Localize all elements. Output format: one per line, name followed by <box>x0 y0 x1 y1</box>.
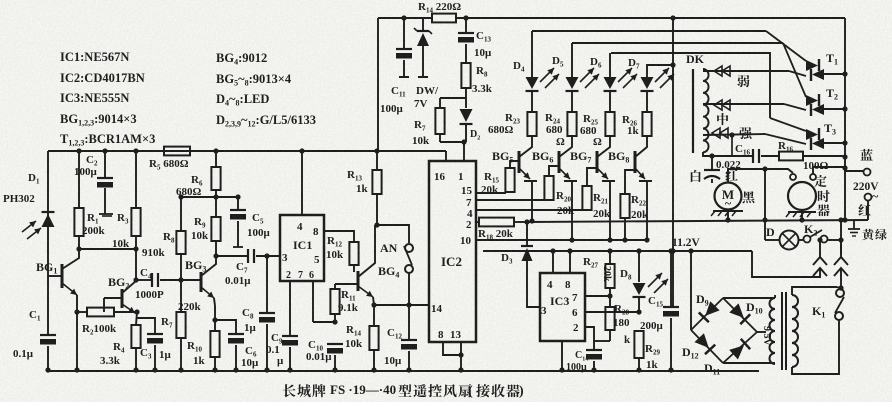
capacitor C10 0.01u <box>327 343 343 345</box>
wire line L1 to fan <box>527 220 868 222</box>
resistor R21 20k <box>582 186 591 210</box>
resistor R18 20k <box>479 218 514 227</box>
motor M <box>715 183 742 210</box>
terminal blue 220V <box>860 149 872 161</box>
wire LED routing line D4 <box>532 30 766 32</box>
capacitor C15 200u <box>670 251 672 306</box>
label weak <box>737 75 749 87</box>
diode D2 <box>465 98 467 108</box>
resistor R11 9.1k <box>335 283 358 285</box>
resistor R14 220 ohm <box>432 14 456 23</box>
capacitor C12 10u <box>408 305 410 339</box>
wire IC1 pin6 down to C10 node <box>312 281 314 322</box>
wire red node to timer <box>728 169 765 183</box>
capacitor C2 100u <box>104 151 106 177</box>
IC U3 NE555 IC3 <box>540 273 585 341</box>
capacitor C5 100u <box>237 197 239 209</box>
wire bridge AC bottom to secondary <box>723 362 775 364</box>
wire DK tap strong <box>703 134 765 135</box>
wire bus corner into IC2 pin16 <box>445 151 447 161</box>
IC U2 CD4017 IC2 <box>429 161 476 342</box>
capacitor C14 100u <box>586 349 602 351</box>
resistor R24 680 <box>571 91 573 112</box>
wire R22 to L2 <box>624 218 626 240</box>
resistor R15 20k <box>505 168 514 192</box>
switch AN <box>377 225 409 243</box>
wire rail L3 to plug left <box>752 251 820 277</box>
resistor R6 680 ohm <box>215 151 217 167</box>
wire red node down to lamp branch <box>764 169 766 240</box>
wire left rail from top line to bus <box>377 18 379 151</box>
transformer B secondary winding <box>770 298 776 364</box>
node junction dots top line <box>401 15 406 20</box>
triac T3 <box>770 118 806 131</box>
wire bridge positive to rail <box>690 251 692 330</box>
op-amp IC1 NE567 <box>280 215 324 281</box>
wire AN to pin14 node <box>408 273 410 305</box>
wire lamp line to plug right <box>840 240 842 255</box>
wire secondary top lead <box>774 295 776 298</box>
LED D8 <box>638 251 640 282</box>
LED D6 <box>609 53 611 77</box>
LED D5 <box>571 43 573 77</box>
plug connector left <box>813 257 827 265</box>
wire DK tap middle <box>703 103 784 105</box>
resistor R2 100k <box>77 311 87 313</box>
label red lead <box>725 169 737 181</box>
wire IC1 pin2 down <box>289 281 291 335</box>
resistor R29 1k <box>634 331 643 358</box>
wire IC3 pin2 to C14 <box>585 327 594 349</box>
wire R7/D2 bracket <box>440 97 466 99</box>
resistor R28 180k <box>609 296 611 307</box>
wire 11.2V rail L3 <box>483 250 752 252</box>
label black lead <box>743 191 755 203</box>
wire IC1 pin4 to bus <box>301 151 303 215</box>
label strong <box>739 127 751 139</box>
diode D3 <box>526 222 528 245</box>
resistor R9 10k <box>215 197 217 217</box>
node bus dots <box>76 148 81 153</box>
snubber capacitor C16 0.022 <box>712 155 753 157</box>
wire upper bus <box>48 150 446 152</box>
resistor R14 10k <box>373 305 375 326</box>
wire top supply line <box>378 17 432 19</box>
resistor R8 3.3k <box>461 63 470 88</box>
wire IC2 pin4 to R21 <box>476 209 587 211</box>
LED D7 <box>647 65 673 77</box>
wire K1 to primary bottom <box>792 320 839 374</box>
wire base node <box>79 248 136 250</box>
node ground bus dots <box>45 367 50 372</box>
wire bridge right corner stub <box>757 331 766 333</box>
timer <box>788 182 816 210</box>
resistor R7 10k <box>435 108 444 134</box>
resistor R22 20k <box>620 194 629 218</box>
wire BG1 emitter to ground <box>76 312 78 370</box>
wire IC3 pins 4 8 to rail <box>552 251 554 273</box>
wire rail x673 <box>672 18 674 307</box>
caption text <box>283 384 296 397</box>
capacitor C7 0.01u <box>216 255 247 257</box>
resistor R8 910k <box>180 197 182 231</box>
wire ground bus <box>48 370 759 372</box>
resistor R13 1k <box>376 151 378 170</box>
resistor R20 20k <box>544 176 553 200</box>
wire D2 to IC2 pin 1 <box>463 142 465 161</box>
capacitor C6 10u <box>215 320 236 333</box>
resistor R3 10k <box>135 151 137 208</box>
triac T2 <box>783 43 806 97</box>
zener diode DW 7V <box>422 18 424 31</box>
capacitor C1 0.1u <box>47 334 49 336</box>
label middle <box>717 113 728 125</box>
bridge rectifier diode D11 <box>723 332 757 363</box>
wire IC3 pin1 to ground <box>561 341 563 370</box>
transformer core <box>781 292 783 370</box>
wire node under R6 <box>181 196 238 198</box>
capacitor C13 10u <box>465 18 467 32</box>
capacitor C3 1u <box>136 318 155 334</box>
resistor R1 200k <box>78 151 80 208</box>
wire IC2 pin10 line L2 <box>476 239 647 241</box>
wire primary top to K1 <box>792 287 837 295</box>
capacitor C8 1u <box>266 256 268 313</box>
wire BG4 emitter / IC2 pin14 <box>374 304 429 306</box>
wire IC2 pins 8 13 to ground <box>443 342 461 355</box>
resistor R4 3.3k <box>136 312 137 325</box>
transformer primary winding <box>792 295 798 367</box>
wire bridge AC top to secondary <box>723 297 775 299</box>
snubber resistor R16 100 ohm <box>779 152 803 161</box>
resistor R5 680 ohm on bus <box>164 147 190 156</box>
plug connector right <box>834 257 848 265</box>
wire right mains rail <box>844 18 846 220</box>
LED D4 <box>531 31 533 77</box>
capacitor C11 100u <box>403 18 405 48</box>
resistor R7 220k <box>180 280 182 312</box>
wire left rail <box>47 151 49 334</box>
triac T1 <box>766 31 806 61</box>
resistor R23 680Ω <box>531 91 533 112</box>
motor run capacitor white lead <box>691 170 701 182</box>
capacitor C9 0.1u <box>282 335 298 337</box>
resistor R12 10k <box>324 231 354 242</box>
bridge rectifier diode D12 <box>691 330 723 363</box>
capacitor C4 1000P <box>136 279 151 281</box>
wire IC2 pin15 to R15 <box>476 192 506 194</box>
bridge rectifier diode D10 <box>723 298 757 332</box>
bridge rectifier diode D9 <box>691 298 723 330</box>
wire IC3 pin6 to D8 node <box>585 311 639 313</box>
wire R1-R3 node link <box>102 215 112 217</box>
wire DK bottom to motor node <box>703 152 712 156</box>
resistor R10 1k <box>214 306 216 331</box>
wire IC2 pin2 through R18 <box>476 221 479 223</box>
wire IC3 pin7 to R27/R28 node <box>585 295 610 297</box>
label timer <box>814 175 826 187</box>
terminal red <box>865 194 872 201</box>
wire LED routing line D5 <box>572 42 783 44</box>
earth yellow-green <box>853 220 855 229</box>
resistor R25 680 <box>609 91 611 112</box>
resistor R26 1k <box>646 91 648 112</box>
wire LED routing line D6 <box>611 53 770 118</box>
wire IC2 pin7 to R20 <box>476 199 549 201</box>
wire DK tap weak <box>703 70 789 72</box>
resistor R27 20k <box>609 251 611 264</box>
